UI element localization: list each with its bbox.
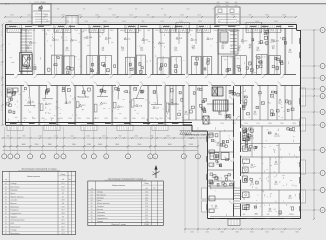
svg-text:1510: 1510 bbox=[102, 136, 106, 138]
svg-text:1510: 1510 bbox=[254, 30, 258, 32]
svg-text:Тамбур: Тамбур bbox=[10, 183, 16, 185]
svg-text:3300: 3300 bbox=[44, 15, 48, 17]
svg-text:15.4: 15.4 bbox=[184, 114, 188, 116]
svg-text:19.7: 19.7 bbox=[145, 212, 148, 214]
svg-text:10: 10 bbox=[106, 156, 108, 158]
svg-text:3300: 3300 bbox=[150, 118, 154, 120]
svg-text:Кухня: Кухня bbox=[97, 200, 102, 202]
svg-text:16.7: 16.7 bbox=[61, 226, 64, 228]
svg-text:04: 04 bbox=[5, 193, 7, 195]
junction rooms bbox=[183, 119, 300, 121]
svg-text:900: 900 bbox=[209, 123, 212, 125]
svg-text:06: 06 bbox=[5, 200, 7, 202]
corridor walls horizontal bbox=[6, 74, 297, 76]
svg-text:11.3: 11.3 bbox=[140, 50, 143, 52]
svg-text:16.8: 16.8 bbox=[209, 39, 213, 41]
svg-text:3300: 3300 bbox=[32, 118, 36, 120]
svg-text:3000: 3000 bbox=[168, 144, 172, 146]
svg-text:600: 600 bbox=[135, 9, 138, 11]
svg-text:21.5: 21.5 bbox=[214, 208, 218, 210]
svg-text:1510: 1510 bbox=[197, 15, 201, 17]
balconies right of wing bbox=[300, 118, 306, 131]
svg-text:900: 900 bbox=[119, 136, 122, 138]
svg-text:3300: 3300 bbox=[225, 2, 229, 4]
svg-text:3300: 3300 bbox=[189, 30, 193, 32]
bottom-left dimension rows bbox=[3, 137, 193, 139]
svg-text:19.2: 19.2 bbox=[276, 41, 280, 43]
svg-text:08: 08 bbox=[91, 212, 93, 214]
svg-text:23.1: 23.1 bbox=[120, 107, 124, 109]
svg-text:3300: 3300 bbox=[23, 118, 27, 120]
svg-text:05: 05 bbox=[91, 203, 93, 205]
svg-text:24.8: 24.8 bbox=[174, 103, 178, 105]
svg-text:23.9: 23.9 bbox=[108, 38, 112, 40]
svg-text:23.7: 23.7 bbox=[274, 184, 278, 186]
svg-text:1200: 1200 bbox=[164, 30, 168, 32]
right dimension column bbox=[313, 30, 315, 219]
svg-text:1200: 1200 bbox=[68, 118, 72, 120]
svg-text:16.6: 16.6 bbox=[221, 46, 225, 48]
svg-text:03: 03 bbox=[91, 197, 93, 199]
stairwell elevator left bbox=[20, 53, 33, 72]
svg-text:3300: 3300 bbox=[159, 118, 163, 120]
windows wing left wall bbox=[206, 136, 208, 142]
svg-text:2100: 2100 bbox=[42, 2, 46, 4]
loggias top row (hatched) bbox=[7, 25, 22, 33]
svg-text:01: 01 bbox=[5, 183, 7, 185]
svg-text:12.3: 12.3 bbox=[26, 46, 30, 48]
svg-text:1510: 1510 bbox=[112, 15, 116, 17]
wing stair node bbox=[212, 87, 218, 96]
svg-text:12: 12 bbox=[1, 35, 3, 37]
svg-text:2100: 2100 bbox=[86, 118, 90, 120]
svg-text:смотри на листе 1-10: смотри на листе 1-10 bbox=[188, 137, 210, 139]
svg-text:Прихожая: Прихожая bbox=[10, 206, 18, 208]
svg-text:1200: 1200 bbox=[212, 9, 215, 11]
svg-text:Д: Д bbox=[322, 96, 323, 98]
svg-text:2100: 2100 bbox=[78, 15, 82, 17]
svg-text:900: 900 bbox=[120, 30, 123, 32]
svg-text:2100: 2100 bbox=[35, 144, 39, 146]
svg-text:15.4: 15.4 bbox=[55, 39, 59, 41]
svg-text:10.2: 10.2 bbox=[61, 190, 64, 192]
room fixtures upper band: boxed bath cells near corridor bbox=[22, 55, 33, 75]
svg-text:10.1: 10.1 bbox=[65, 50, 69, 52]
svg-text:12.8: 12.8 bbox=[179, 38, 183, 40]
balconies bottom row (below bottom wall) bbox=[7, 125, 23, 131]
svg-text:1200: 1200 bbox=[270, 30, 274, 32]
svg-text:1200: 1200 bbox=[229, 30, 233, 32]
svg-text:Жилая комната: Жилая комната bbox=[10, 196, 23, 198]
svg-text:3000: 3000 bbox=[98, 144, 102, 146]
left dimension line bbox=[2, 25, 4, 126]
svg-text:24.8: 24.8 bbox=[161, 43, 165, 45]
svg-text:1510: 1510 bbox=[254, 214, 258, 216]
wing partitions left side bbox=[207, 103, 233, 105]
svg-text:19.6: 19.6 bbox=[73, 40, 77, 42]
outer walls bbox=[6, 24, 297, 26]
svg-text:03: 03 bbox=[5, 190, 7, 192]
svg-text:Коридор: Коридор bbox=[10, 190, 17, 192]
svg-text:Гардеробная: Гардеробная bbox=[10, 213, 21, 215]
svg-text:2100: 2100 bbox=[104, 118, 108, 120]
svg-text:11.5: 11.5 bbox=[82, 105, 85, 107]
svg-text:900: 900 bbox=[235, 2, 238, 4]
svg-text:24.3: 24.3 bbox=[68, 102, 72, 104]
svg-text:2100: 2100 bbox=[134, 136, 138, 138]
svg-text:1200: 1200 bbox=[92, 30, 96, 32]
svg-text:11.8: 11.8 bbox=[145, 206, 148, 208]
svg-text:10: 10 bbox=[91, 218, 93, 220]
svg-text:19.9: 19.9 bbox=[61, 206, 64, 208]
fine texture marks bbox=[83, 37, 85, 38]
svg-text:Санузел: Санузел bbox=[10, 200, 17, 202]
svg-text:16.4: 16.4 bbox=[256, 50, 260, 52]
svg-text:Площ.: Площ. bbox=[144, 183, 149, 185]
svg-text:3300: 3300 bbox=[65, 30, 69, 32]
svg-text:900: 900 bbox=[267, 214, 270, 216]
svg-text:2100: 2100 bbox=[205, 232, 209, 234]
svg-text:3300: 3300 bbox=[268, 123, 272, 125]
svg-text:900: 900 bbox=[42, 30, 45, 32]
balconies left of wing bbox=[202, 188, 208, 199]
svg-text:2100: 2100 bbox=[138, 30, 142, 32]
svg-text:13.7: 13.7 bbox=[274, 136, 278, 138]
svg-text:10: 10 bbox=[5, 213, 7, 215]
svg-text:09: 09 bbox=[5, 210, 7, 212]
svg-text:1200: 1200 bbox=[220, 123, 224, 125]
svg-text:900: 900 bbox=[23, 136, 26, 138]
svg-text:900: 900 bbox=[164, 15, 167, 17]
svg-text:8.7: 8.7 bbox=[122, 50, 125, 52]
svg-text:13: 13 bbox=[155, 156, 157, 158]
svg-text:15.2: 15.2 bbox=[250, 138, 254, 140]
svg-text:10.6: 10.6 bbox=[288, 52, 292, 54]
svg-text:3300: 3300 bbox=[115, 144, 119, 146]
svg-text:08: 08 bbox=[5, 206, 7, 208]
svg-text:3300: 3300 bbox=[132, 118, 136, 120]
wing partitions right side bbox=[241, 125, 301, 127]
svg-text:Кухня: Кухня bbox=[10, 193, 15, 195]
svg-text:20.6: 20.6 bbox=[216, 164, 220, 166]
svg-text:12: 12 bbox=[1, 80, 3, 82]
svg-text:3300: 3300 bbox=[110, 30, 114, 32]
svg-text:24.9: 24.9 bbox=[244, 40, 248, 42]
svg-text:1200: 1200 bbox=[108, 9, 111, 11]
svg-text:1510: 1510 bbox=[256, 123, 260, 125]
svg-text:2100: 2100 bbox=[10, 15, 14, 17]
svg-text:Вестибюль: Вестибюль bbox=[10, 233, 19, 235]
svg-text:900: 900 bbox=[56, 30, 59, 32]
svg-text:20.2: 20.2 bbox=[61, 186, 64, 188]
svg-text:20.3: 20.3 bbox=[216, 145, 220, 147]
svg-text:1500: 1500 bbox=[72, 144, 76, 146]
svg-text:900: 900 bbox=[7, 136, 10, 138]
svg-text:1510: 1510 bbox=[129, 30, 133, 32]
svg-text:Ванная: Ванная bbox=[10, 203, 16, 205]
svg-text:600: 600 bbox=[83, 9, 86, 11]
stair shaft 2 interior bbox=[226, 8, 228, 24]
svg-text:12: 12 bbox=[1, 50, 3, 52]
wing outline walls bbox=[207, 131, 209, 219]
svg-text:14.5: 14.5 bbox=[61, 220, 64, 222]
svg-text:900: 900 bbox=[33, 30, 36, 32]
svg-text:Коридор: Коридор bbox=[97, 197, 104, 199]
svg-text:И: И bbox=[322, 150, 323, 152]
svg-text:Электрощитовая: Электрощитовая bbox=[10, 220, 24, 222]
svg-text:1510: 1510 bbox=[190, 232, 194, 234]
svg-text:20.7: 20.7 bbox=[170, 102, 174, 104]
svg-text:18.9: 18.9 bbox=[61, 230, 64, 232]
svg-text:12: 12 bbox=[1, 110, 3, 112]
svg-text:м2: м2 bbox=[62, 179, 64, 181]
svg-text:900: 900 bbox=[235, 5, 238, 7]
svg-text:07: 07 bbox=[91, 209, 93, 211]
svg-text:1510: 1510 bbox=[172, 30, 176, 32]
svg-text:12: 12 bbox=[1, 95, 3, 97]
bottom-right dimension line bbox=[185, 228, 300, 230]
top-right rooms detail bbox=[282, 38, 285, 40]
svg-text:900: 900 bbox=[226, 5, 229, 7]
svg-text:2100: 2100 bbox=[137, 144, 141, 146]
svg-text:2100: 2100 bbox=[189, 144, 193, 146]
svg-text:05: 05 bbox=[5, 196, 7, 198]
top shaft outlines bbox=[32, 4, 51, 25]
svg-text:13.5: 13.5 bbox=[156, 107, 160, 109]
svg-text:Наименование: Наименование bbox=[112, 185, 125, 187]
svg-text:Вестибюль: Вестибюль bbox=[97, 194, 106, 196]
svg-text:900: 900 bbox=[147, 15, 150, 17]
small canopy box above wall bbox=[66, 16, 78, 25]
svg-text:14: 14 bbox=[183, 156, 185, 158]
svg-text:23.8: 23.8 bbox=[61, 200, 64, 202]
svg-text:23.8: 23.8 bbox=[192, 46, 196, 48]
svg-text:1200: 1200 bbox=[123, 118, 127, 120]
svg-text:Тамбур: Тамбур bbox=[10, 230, 16, 232]
svg-text:3300: 3300 bbox=[166, 136, 170, 138]
svg-text:600: 600 bbox=[57, 9, 60, 11]
wing room labels bbox=[217, 142, 219, 144]
svg-text:24.8: 24.8 bbox=[61, 213, 64, 215]
svg-text:Площ.: Площ. bbox=[61, 174, 66, 176]
svg-text:9.3: 9.3 bbox=[217, 180, 220, 182]
svg-text:1510: 1510 bbox=[180, 15, 184, 17]
svg-text:1200: 1200 bbox=[38, 136, 42, 138]
wing bath column dense bbox=[243, 128, 247, 133]
svg-text:12: 12 bbox=[1, 65, 3, 67]
svg-text:09: 09 bbox=[91, 215, 93, 217]
svg-text:1510: 1510 bbox=[245, 30, 249, 32]
svg-text:1200: 1200 bbox=[232, 123, 236, 125]
svg-text:Экспликация помещений 2 секции: Экспликация помещений 2 секции bbox=[108, 177, 144, 180]
svg-text:3300: 3300 bbox=[214, 15, 218, 17]
svg-text:Ванная: Ванная bbox=[97, 209, 103, 211]
svg-text:8.5: 8.5 bbox=[145, 209, 147, 211]
svg-text:19.3: 19.3 bbox=[61, 233, 64, 235]
svg-text:1510: 1510 bbox=[176, 118, 180, 120]
svg-text:Наименование: Наименование bbox=[27, 176, 40, 178]
building footprint fill bbox=[5, 25, 300, 220]
svg-text:1200: 1200 bbox=[216, 5, 220, 7]
svg-text:13: 13 bbox=[5, 223, 7, 225]
svg-text:1510: 1510 bbox=[34, 2, 38, 4]
wing left dimension verticals bbox=[184, 140, 186, 233]
svg-text:06: 06 bbox=[91, 206, 93, 208]
north arrow bbox=[155, 167, 157, 179]
svg-text:2100: 2100 bbox=[167, 118, 171, 120]
top shaft 1 interior bbox=[41, 5, 43, 24]
svg-text:Кладовая: Кладовая bbox=[97, 215, 105, 217]
svg-text:1200: 1200 bbox=[282, 15, 286, 17]
svg-text:14.3: 14.3 bbox=[103, 103, 107, 105]
windows top wall bbox=[9, 25, 17, 27]
svg-text:3300: 3300 bbox=[50, 118, 54, 120]
svg-text:23.2: 23.2 bbox=[268, 211, 272, 213]
left edge tiny marks bbox=[1, 31, 2, 33]
svg-text:1510: 1510 bbox=[70, 136, 74, 138]
svg-text:2100: 2100 bbox=[213, 30, 217, 32]
svg-text:1510: 1510 bbox=[114, 118, 118, 120]
svg-text:13.2: 13.2 bbox=[237, 50, 241, 52]
svg-text:3300: 3300 bbox=[280, 123, 284, 125]
svg-text:900: 900 bbox=[217, 2, 220, 4]
svg-text:5.2: 5.2 bbox=[62, 193, 64, 195]
svg-text:3300: 3300 bbox=[235, 232, 239, 234]
svg-text:1200: 1200 bbox=[59, 118, 63, 120]
svg-text:23.5: 23.5 bbox=[145, 40, 149, 42]
svg-text:Б: Б bbox=[322, 66, 323, 68]
svg-text:3300: 3300 bbox=[292, 123, 296, 125]
svg-text:8.6: 8.6 bbox=[249, 47, 252, 49]
svg-text:11.6: 11.6 bbox=[62, 183, 65, 185]
svg-text:14.1: 14.1 bbox=[271, 46, 275, 48]
svg-text:12: 12 bbox=[150, 156, 152, 158]
svg-text:21.7: 21.7 bbox=[145, 203, 148, 205]
svg-text:1200: 1200 bbox=[95, 15, 99, 17]
svg-text:9.4: 9.4 bbox=[102, 50, 105, 52]
svg-text:1200: 1200 bbox=[77, 118, 81, 120]
svg-text:11.0: 11.0 bbox=[145, 191, 148, 193]
lower band partitions bbox=[20, 85, 22, 125]
svg-text:1200: 1200 bbox=[147, 30, 151, 32]
svg-text:24.5: 24.5 bbox=[145, 215, 148, 217]
svg-text:8.4: 8.4 bbox=[62, 203, 64, 205]
svg-text:Экспликацию помещений: Экспликацию помещений bbox=[185, 133, 214, 136]
wing corridor vertical bbox=[233, 86, 235, 217]
svg-text:Тамбур: Тамбур bbox=[97, 191, 103, 193]
svg-text:1510: 1510 bbox=[265, 232, 269, 234]
svg-text:12.5: 12.5 bbox=[193, 39, 197, 41]
svg-text:22.0: 22.0 bbox=[253, 114, 257, 116]
svg-text:900: 900 bbox=[249, 15, 252, 17]
grid verticals + circles bbox=[3, 127, 5, 154]
svg-text:1510: 1510 bbox=[141, 118, 145, 120]
svg-text:Колясочная: Колясочная bbox=[10, 226, 20, 228]
svg-text:1510: 1510 bbox=[198, 30, 202, 32]
svg-text:Кладовая: Кладовая bbox=[10, 210, 18, 212]
svg-text:14.9: 14.9 bbox=[274, 164, 278, 166]
svg-text:3000: 3000 bbox=[22, 144, 26, 146]
room fixtures lower band bbox=[24, 87, 26, 89]
svg-text:9.6: 9.6 bbox=[62, 216, 64, 218]
svg-text:11.4: 11.4 bbox=[145, 194, 148, 196]
svg-text:1200: 1200 bbox=[186, 9, 189, 11]
svg-text:23.7: 23.7 bbox=[61, 210, 64, 212]
svg-text:3300: 3300 bbox=[295, 232, 299, 234]
svg-text:14.4: 14.4 bbox=[30, 102, 34, 104]
svg-text:02: 02 bbox=[5, 186, 7, 188]
svg-text:1510: 1510 bbox=[244, 123, 248, 125]
svg-text:5.7: 5.7 bbox=[62, 196, 64, 198]
windows wing right wall bbox=[299, 38, 301, 44]
svg-text:3300: 3300 bbox=[220, 232, 224, 234]
svg-text:1200: 1200 bbox=[155, 30, 159, 32]
svg-text:1510: 1510 bbox=[47, 30, 51, 32]
svg-text:600: 600 bbox=[161, 9, 164, 11]
svg-text:900: 900 bbox=[280, 30, 283, 32]
svg-text:11: 11 bbox=[5, 216, 7, 218]
svg-text:Е: Е bbox=[322, 112, 323, 114]
svg-text:Кат: Кат bbox=[69, 179, 72, 181]
svg-text:900: 900 bbox=[101, 30, 104, 32]
svg-text:11.8: 11.8 bbox=[174, 50, 177, 52]
svg-text:3300: 3300 bbox=[265, 15, 269, 17]
svg-text:04: 04 bbox=[91, 200, 93, 202]
svg-text:Санузел: Санузел bbox=[97, 206, 104, 208]
svg-text:Итого по 1 этажу: Итого по 1 этажу bbox=[112, 224, 126, 226]
svg-text:18.4: 18.4 bbox=[61, 223, 64, 225]
svg-text:Жилая комната: Жилая комната bbox=[97, 203, 110, 205]
svg-text:1-1: 1-1 bbox=[5, 4, 8, 6]
svg-text:900: 900 bbox=[205, 30, 208, 32]
svg-text:3300: 3300 bbox=[290, 214, 294, 216]
svg-text:1510: 1510 bbox=[231, 15, 235, 17]
svg-text:3300: 3300 bbox=[48, 144, 52, 146]
svg-text:Прихожая: Прихожая bbox=[97, 212, 105, 214]
svg-text:900: 900 bbox=[182, 30, 185, 32]
svg-text:16.9: 16.9 bbox=[48, 104, 52, 106]
svg-text:11.3: 11.3 bbox=[127, 39, 130, 41]
svg-text:01: 01 bbox=[91, 191, 93, 193]
svg-text:15: 15 bbox=[5, 230, 7, 232]
windows bottom wall bbox=[10, 123, 17, 125]
svg-text:м2: м2 bbox=[146, 188, 148, 190]
svg-text:1200: 1200 bbox=[74, 30, 78, 32]
hatched wall stub at step bbox=[180, 131, 182, 134]
svg-text:1510: 1510 bbox=[220, 30, 224, 32]
svg-text:1510: 1510 bbox=[54, 136, 58, 138]
svg-text:2100: 2100 bbox=[95, 118, 99, 120]
svg-text:2100: 2100 bbox=[278, 214, 282, 216]
svg-text:1200: 1200 bbox=[27, 15, 31, 17]
windows wing bottom wall bbox=[214, 218, 220, 220]
svg-text:В: В bbox=[322, 78, 323, 80]
svg-text:3300: 3300 bbox=[41, 118, 45, 120]
wing fixtures bbox=[210, 181, 234, 188]
svg-text:23.3: 23.3 bbox=[288, 198, 292, 200]
svg-text:Гардеробная: Гардеробная bbox=[97, 218, 108, 220]
svg-text:11.5: 11.5 bbox=[270, 42, 273, 44]
svg-text:25.7: 25.7 bbox=[145, 218, 148, 220]
entrance porch bottom of wing bbox=[228, 219, 240, 226]
svg-text:12: 12 bbox=[5, 220, 7, 222]
svg-text:17.4: 17.4 bbox=[32, 42, 36, 44]
svg-text:Вестибюль: Вестибюль bbox=[10, 186, 19, 188]
svg-text:11: 11 bbox=[127, 156, 129, 158]
svg-text:900: 900 bbox=[243, 214, 246, 216]
svg-text:07: 07 bbox=[5, 203, 7, 205]
unit partition walls upper band bbox=[20, 28, 22, 75]
